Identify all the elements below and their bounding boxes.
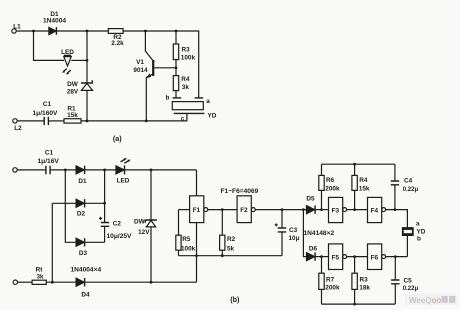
svg-text:C5: C5 — [404, 278, 413, 285]
node C4 bottom — [394, 208, 397, 211]
svg-text:Rt: Rt — [36, 267, 44, 274]
svg-text:R3: R3 — [360, 276, 369, 283]
svg-text:L2: L2 — [14, 125, 22, 132]
svg-text:200k: 200k — [325, 284, 340, 291]
svg-text:D1: D1 — [78, 178, 87, 185]
diode D3 — [76, 238, 84, 246]
resistor R3 18k — [354, 257, 356, 274]
resistor R2 2.2k — [108, 29, 123, 34]
inverter F4 — [368, 197, 382, 222]
svg-text:b: b — [417, 235, 421, 242]
electrode b — [173, 97, 182, 99]
resistor R4 3k — [175, 68, 177, 76]
node R3 bottom — [353, 303, 356, 306]
svg-text:C3: C3 — [289, 227, 298, 234]
svg-text:3k: 3k — [37, 274, 44, 280]
node at D1 anode branch — [32, 30, 35, 33]
svg-text:2.2k: 2.2k — [111, 40, 124, 47]
wire D1 to R2 — [56, 30, 108, 32]
svg-text:D2: D2 — [77, 211, 86, 218]
svg-text:R4: R4 — [181, 76, 190, 83]
zener DW 28V — [81, 80, 92, 83]
node D1 cathode / zener branch — [86, 30, 89, 33]
svg-text:9014: 9014 — [133, 67, 148, 74]
svg-text:12V: 12V — [138, 229, 150, 236]
wire to C1 — [17, 169, 46, 171]
node D6 branch — [302, 208, 305, 211]
svg-text:3k: 3k — [182, 84, 190, 91]
capacitor C1 1u/16V — [46, 166, 50, 174]
inverter F5 — [329, 244, 343, 270]
svg-text:1N4148×2: 1N4148×2 — [304, 230, 335, 237]
node R3 top — [175, 30, 178, 33]
svg-text:1N4004×4: 1N4004×4 — [71, 267, 102, 274]
svg-text:10μ: 10μ — [289, 235, 300, 242]
electrode a — [195, 97, 204, 99]
wire D1 to LED — [85, 169, 116, 171]
LED arrows — [64, 69, 67, 72]
resistor R2 5k — [221, 210, 223, 236]
wire D5 to F3 — [315, 209, 328, 211]
node DW bottom — [150, 281, 153, 284]
svg-text:0.22μ: 0.22μ — [403, 187, 419, 193]
svg-text:C4: C4 — [404, 177, 413, 184]
LED arrows — [121, 159, 126, 162]
wire D2 to C2 column — [85, 202, 105, 204]
ground rail right section — [322, 303, 396, 305]
capacitor C3 10u — [281, 210, 283, 228]
svg-text:C2: C2 — [113, 220, 122, 227]
svg-text:15k: 15k — [359, 186, 370, 193]
capacitor C2 10u/25V — [104, 203, 106, 222]
wire left branch down — [34, 31, 65, 60]
svg-text:R4: R4 — [359, 177, 368, 184]
svg-text:D6: D6 — [309, 246, 318, 253]
resistor R4 15k — [354, 164, 356, 175]
wire D3 to C2 column — [85, 241, 105, 243]
resistor R6 200k — [321, 164, 323, 175]
svg-text:18k: 18k — [359, 284, 370, 291]
resistor R5 100k — [178, 210, 180, 236]
node F3 out / R4 bottom — [353, 208, 356, 211]
svg-text:200k: 200k — [325, 186, 340, 193]
svg-text:F1: F1 — [193, 207, 201, 214]
svg-text:D3: D3 — [79, 250, 88, 257]
diode D4 — [76, 278, 84, 286]
svg-text:V1: V1 — [136, 59, 144, 66]
wire zener branch upper — [86, 31, 88, 83]
wire zener to bottom rail — [86, 90, 88, 121]
svg-text:10μ/25V: 10μ/25V — [107, 233, 133, 240]
piezo disc YD (a) — [172, 102, 203, 110]
inverter F2 — [237, 196, 251, 223]
svg-text:a: a — [206, 98, 210, 105]
node F1 rail crossing — [195, 254, 198, 257]
wire LED to F1 corner — [125, 169, 197, 171]
svg-text:R3: R3 — [182, 47, 191, 54]
svg-text:F4: F4 — [371, 207, 379, 214]
diode D1 — [76, 166, 84, 174]
diode D5 — [306, 205, 315, 213]
resistor Rt 3k — [32, 280, 46, 284]
svg-text:F5: F5 — [332, 254, 340, 261]
wire C1 to R1 — [49, 120, 64, 122]
svg-text:R7: R7 — [326, 276, 335, 283]
D6 branch vertical — [303, 210, 306, 257]
node R2 top — [221, 208, 224, 211]
inverter F3 — [329, 197, 343, 222]
node F5 out / R3 top — [353, 255, 356, 258]
svg-text:C1: C1 — [45, 150, 54, 157]
svg-text:R6: R6 — [326, 177, 335, 184]
svg-text:(a): (a) — [113, 134, 122, 143]
svg-text:1N4004: 1N4004 — [43, 18, 66, 25]
svg-text:R2: R2 — [227, 236, 236, 243]
node DW top — [150, 169, 153, 172]
node C5 top — [394, 255, 397, 258]
capacitor C1 1u/160V — [44, 117, 48, 125]
resistor R7 200k — [321, 257, 323, 274]
svg-text:0.22μ: 0.22μ — [403, 286, 419, 292]
watermark — [405, 294, 457, 306]
svg-text:D4: D4 — [81, 292, 90, 299]
svg-text:b: b — [166, 95, 170, 102]
svg-text:L1: L1 — [13, 24, 21, 31]
svg-text:DW: DW — [67, 81, 79, 88]
resistor R1 15k — [64, 119, 81, 123]
svg-text:F6: F6 — [371, 254, 379, 261]
terminal input bottom — [13, 280, 17, 284]
vertical C2 column upper — [104, 170, 106, 203]
node LED cathode — [86, 59, 89, 62]
transistor V1 9014 — [145, 31, 154, 62]
diode D6 — [306, 252, 315, 260]
node C3 top — [281, 208, 284, 211]
node R7 top / F5 input — [320, 255, 323, 258]
svg-text:5k: 5k — [227, 246, 235, 253]
svg-text:LED: LED — [61, 49, 74, 56]
left vertical to D3 row — [65, 170, 76, 242]
svg-text:DW: DW — [134, 219, 146, 226]
left vertical D2 row to bottom rail — [51, 203, 53, 282]
wire to Rt — [18, 281, 33, 283]
LED (b) — [116, 166, 124, 174]
svg-text:F3: F3 — [332, 207, 340, 214]
svg-text:100k: 100k — [181, 55, 196, 62]
node R4 top — [353, 163, 356, 166]
node zener bottom — [86, 120, 89, 123]
wire D6 to F5 — [315, 256, 328, 258]
D2 row wire — [52, 202, 76, 204]
node D2 cathode — [103, 202, 106, 205]
diode D1 1N4004 — [49, 27, 56, 35]
svg-text:F2: F2 — [240, 207, 248, 214]
svg-text:F1~F6=4069: F1~F6=4069 — [221, 188, 259, 195]
wire L1 to D1 node — [16, 30, 49, 32]
capacitor C4 0.22u — [394, 164, 396, 181]
svg-text:D5: D5 — [306, 196, 315, 203]
svg-text:YD: YD — [208, 113, 217, 120]
svg-text:a: a — [416, 221, 420, 228]
node R2 bottom — [221, 254, 224, 257]
bottom feedback wire — [179, 255, 283, 257]
svg-text:15k: 15k — [67, 112, 78, 119]
node C1/D1 — [64, 169, 67, 172]
inverter F1 — [196, 170, 198, 196]
wire C1 to D1 — [50, 169, 76, 171]
node top of C2 column — [103, 169, 106, 172]
svg-text:28V: 28V — [67, 89, 79, 96]
resistor R3 100k — [175, 31, 177, 44]
piezo YD (b) — [402, 227, 414, 236]
terminal input top — [13, 168, 17, 172]
wire LED to right branch — [71, 59, 87, 61]
bottom rail (b) — [46, 281, 196, 283]
svg-text:WeeQoo: WeeQoo — [409, 296, 441, 305]
wire L2 to C1 — [17, 120, 44, 122]
svg-text:LED: LED — [117, 178, 130, 185]
svg-text:1μ/160V: 1μ/160V — [33, 110, 59, 117]
svg-text:100k: 100k — [181, 246, 196, 253]
svg-text:(b): (b) — [230, 295, 240, 304]
svg-text:C1: C1 — [43, 101, 52, 108]
node collector — [144, 30, 147, 33]
wire top rail to right corner — [123, 31, 199, 98]
node R6 bottom / F3 input — [320, 208, 323, 211]
terminal L1 — [12, 29, 16, 33]
bottom rail (a) — [81, 120, 187, 122]
diode D2 — [76, 199, 84, 207]
svg-text:R5: R5 — [182, 236, 191, 243]
capacitor C5 0.22u — [394, 257, 396, 280]
node emitter bottom — [145, 120, 148, 123]
zener DW 12V — [150, 170, 152, 220]
node base / divider — [175, 66, 178, 69]
terminal L2 — [13, 119, 17, 123]
svg-text:1μ/16V: 1μ/16V — [38, 158, 60, 165]
inverter F6 — [368, 244, 382, 270]
LED (a) — [64, 54, 71, 56]
node Rt / D2 branch — [51, 281, 54, 284]
top rail right section — [322, 163, 395, 165]
